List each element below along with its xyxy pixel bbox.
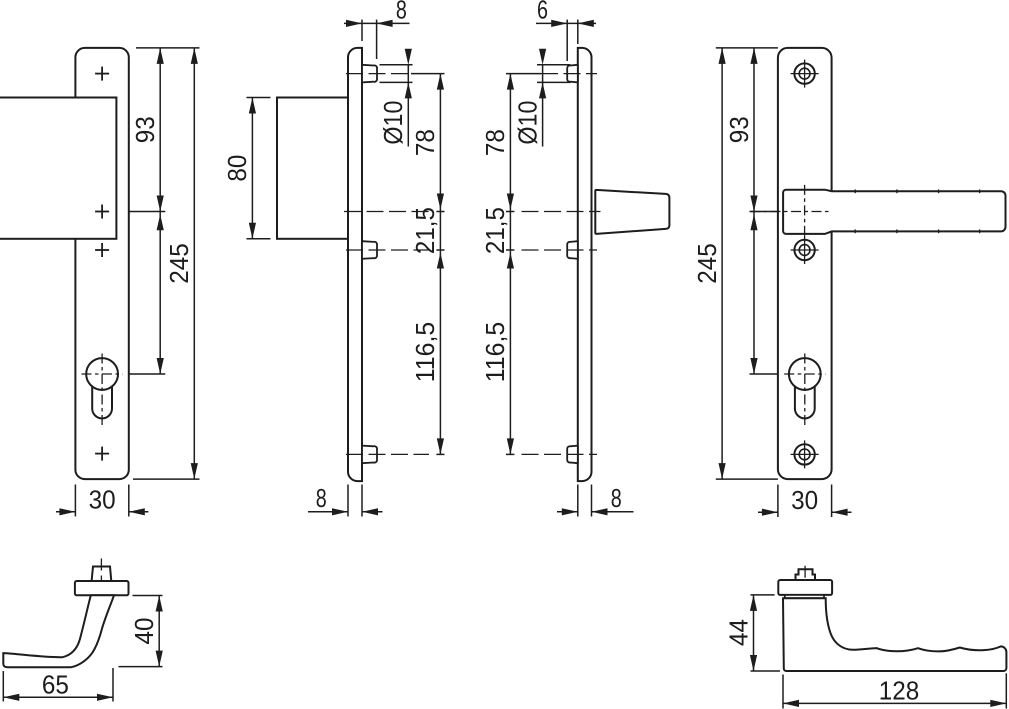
svg-text:30: 30 [791, 485, 818, 515]
svg-text:44: 44 [723, 619, 753, 646]
svg-text:21,5: 21,5 [480, 207, 510, 254]
svg-text:Ø10: Ø10 [378, 101, 408, 145]
svg-text:8: 8 [316, 483, 327, 513]
svg-text:8: 8 [396, 0, 407, 25]
svg-text:245: 245 [692, 243, 722, 284]
svg-text:80: 80 [222, 155, 252, 182]
svg-text:Ø10: Ø10 [512, 101, 542, 145]
svg-text:6: 6 [537, 0, 548, 25]
svg-text:21,5: 21,5 [410, 207, 440, 254]
svg-text:116,5: 116,5 [410, 322, 440, 383]
svg-text:116,5: 116,5 [480, 322, 510, 383]
svg-text:128: 128 [879, 676, 920, 706]
svg-text:30: 30 [89, 485, 116, 515]
svg-text:78: 78 [410, 129, 440, 156]
svg-text:65: 65 [42, 670, 69, 700]
svg-text:40: 40 [129, 618, 159, 645]
svg-text:78: 78 [480, 129, 510, 156]
svg-text:8: 8 [611, 483, 622, 513]
svg-text:93: 93 [130, 116, 160, 143]
svg-text:93: 93 [724, 116, 754, 143]
svg-text:245: 245 [164, 243, 194, 284]
